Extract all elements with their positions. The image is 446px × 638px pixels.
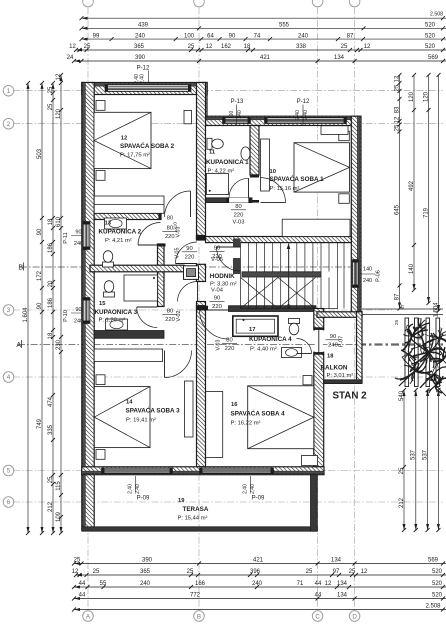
- svg-text:A: A: [16, 342, 21, 349]
- svg-text:D: D: [352, 613, 357, 620]
- svg-text:44: 44: [79, 592, 86, 598]
- svg-text:1: 1: [7, 88, 11, 95]
- svg-text:P-09: P-09: [137, 496, 150, 502]
- svg-text:115: 115: [56, 481, 62, 491]
- svg-text:P-10: P-10: [63, 310, 69, 322]
- svg-text:25: 25: [84, 44, 91, 50]
- svg-text:134: 134: [337, 592, 348, 598]
- svg-text:3: 3: [7, 307, 11, 314]
- svg-text:90: 90: [214, 246, 220, 252]
- svg-text:90: 90: [229, 111, 235, 117]
- svg-text:120: 120: [409, 91, 415, 102]
- svg-text:220: 220: [185, 255, 195, 261]
- svg-text:83: 83: [394, 106, 400, 113]
- svg-text:P: 1,20 m²: P: 1,20 m²: [99, 318, 126, 324]
- svg-text:220: 220: [212, 304, 222, 310]
- svg-text:492: 492: [409, 180, 415, 191]
- svg-text:5: 5: [7, 468, 11, 475]
- svg-text:2,40: 2,40: [295, 110, 301, 120]
- svg-text:74: 74: [254, 33, 261, 39]
- svg-text:6: 6: [7, 499, 11, 506]
- svg-text:2,40: 2,40: [243, 484, 249, 494]
- svg-text:12: 12: [394, 116, 400, 123]
- svg-text:P: 4,22 m²: P: 4,22 m²: [208, 168, 235, 174]
- svg-text:44: 44: [315, 581, 322, 587]
- svg-text:645: 645: [394, 204, 400, 215]
- svg-text:P-09: P-09: [252, 496, 265, 502]
- svg-text:520: 520: [425, 33, 436, 39]
- svg-text:134: 134: [334, 55, 345, 61]
- svg-text:390: 390: [142, 557, 153, 563]
- svg-text:18: 18: [244, 44, 251, 50]
- svg-text:240: 240: [135, 33, 146, 39]
- svg-text:25: 25: [48, 476, 54, 483]
- svg-text:1.604: 1.604: [433, 302, 439, 318]
- svg-text:2.508: 2.508: [430, 12, 443, 18]
- svg-text:V-05: V-05: [175, 247, 181, 258]
- svg-text:2,40: 2,40: [135, 484, 141, 494]
- svg-text:99: 99: [93, 33, 100, 39]
- svg-text:KUPAONICA 1: KUPAONICA 1: [206, 159, 249, 166]
- svg-text:90: 90: [229, 33, 236, 39]
- svg-text:P: 4,21 m²: P: 4,21 m²: [105, 238, 132, 244]
- svg-text:97: 97: [333, 569, 340, 575]
- svg-text:2,40: 2,40: [128, 484, 134, 494]
- svg-text:474: 474: [48, 396, 54, 407]
- svg-text:19: 19: [178, 498, 185, 504]
- svg-text:90: 90: [214, 296, 220, 302]
- svg-text:520: 520: [425, 23, 436, 29]
- svg-text:B: B: [197, 613, 201, 620]
- svg-text:25: 25: [394, 84, 400, 91]
- svg-text:P: 17,75 m²: P: 17,75 m²: [120, 153, 150, 159]
- svg-text:520: 520: [432, 569, 443, 575]
- svg-text:25: 25: [341, 44, 348, 50]
- svg-text:220: 220: [225, 346, 235, 352]
- svg-text:520: 520: [432, 592, 443, 598]
- svg-text:569: 569: [428, 557, 439, 563]
- svg-text:P-12: P-12: [137, 66, 150, 72]
- svg-text:240: 240: [140, 581, 151, 587]
- svg-text:P: 4,40 m²: P: 4,40 m²: [250, 346, 277, 352]
- svg-text:V-05: V-05: [211, 257, 223, 263]
- svg-text:335: 335: [48, 424, 54, 435]
- svg-text:421: 421: [260, 55, 271, 61]
- svg-text:240: 240: [328, 343, 338, 349]
- svg-text:P: 15,16 m²: P: 15,16 m²: [270, 186, 300, 192]
- svg-text:12: 12: [394, 75, 400, 82]
- svg-text:24: 24: [67, 55, 74, 61]
- svg-text:87: 87: [400, 304, 406, 310]
- svg-text:80: 80: [226, 338, 232, 344]
- svg-text:610: 610: [56, 216, 62, 227]
- svg-text:90: 90: [186, 246, 192, 252]
- svg-text:90: 90: [37, 228, 43, 235]
- svg-text:P-07: P-07: [339, 336, 345, 347]
- svg-text:109: 109: [56, 511, 62, 522]
- svg-text:365: 365: [134, 44, 145, 50]
- svg-text:25: 25: [399, 467, 405, 474]
- svg-text:44: 44: [315, 592, 322, 598]
- svg-text:396: 396: [250, 569, 261, 575]
- svg-text:V-03: V-03: [216, 339, 222, 350]
- svg-text:80: 80: [167, 215, 173, 221]
- svg-text:100: 100: [184, 33, 195, 39]
- svg-text:212: 212: [399, 497, 405, 508]
- svg-text:12: 12: [364, 44, 371, 50]
- svg-text:220: 220: [165, 317, 175, 323]
- svg-text:162: 162: [221, 44, 232, 50]
- svg-text:64: 64: [207, 33, 214, 39]
- svg-text:16: 16: [231, 402, 238, 408]
- svg-text:12: 12: [69, 44, 76, 50]
- svg-text:140: 140: [363, 267, 372, 273]
- svg-text:V-04: V-04: [211, 288, 224, 294]
- svg-text:SPAVAĆA SOBA 1: SPAVAĆA SOBA 1: [270, 174, 325, 183]
- svg-text:537: 537: [411, 449, 417, 460]
- svg-text:55: 55: [100, 581, 107, 587]
- svg-text:12: 12: [325, 581, 332, 587]
- svg-text:2.508: 2.508: [425, 603, 441, 609]
- svg-text:KUPAONICA 3: KUPAONICA 3: [95, 309, 138, 316]
- svg-text:SPAVAĆA SOBA 4: SPAVAĆA SOBA 4: [231, 409, 286, 418]
- svg-text:V-03: V-03: [233, 220, 245, 226]
- svg-text:25: 25: [394, 124, 400, 131]
- svg-text:90: 90: [75, 307, 81, 313]
- svg-text:P: 3,01 m²: P: 3,01 m²: [327, 373, 354, 379]
- svg-text:25: 25: [74, 557, 81, 563]
- svg-text:80: 80: [235, 204, 241, 210]
- svg-text:80: 80: [167, 309, 173, 315]
- svg-text:P: 15,44 m²: P: 15,44 m²: [178, 516, 208, 522]
- svg-text:240: 240: [298, 33, 309, 39]
- svg-text:240: 240: [363, 278, 372, 284]
- svg-text:719: 719: [423, 207, 429, 218]
- svg-text:BALKON: BALKON: [321, 364, 348, 371]
- svg-text:15: 15: [99, 301, 106, 307]
- svg-text:STAN 2: STAN 2: [333, 391, 368, 402]
- svg-text:166: 166: [195, 581, 206, 587]
- svg-text:87: 87: [394, 293, 400, 300]
- svg-text:2,40: 2,40: [250, 484, 256, 494]
- svg-text:14: 14: [126, 400, 133, 406]
- svg-text:V-02: V-02: [176, 310, 182, 321]
- svg-text:P-12: P-12: [297, 99, 310, 105]
- svg-text:12: 12: [206, 44, 213, 50]
- svg-text:12: 12: [72, 569, 79, 575]
- svg-text:140: 140: [409, 263, 415, 274]
- svg-text:421: 421: [253, 557, 264, 563]
- svg-text:2,40: 2,40: [303, 110, 309, 120]
- svg-text:240: 240: [237, 110, 243, 119]
- svg-text:12: 12: [361, 569, 368, 575]
- svg-text:390: 390: [135, 55, 146, 61]
- svg-text:18: 18: [48, 332, 54, 339]
- svg-text:TERASA: TERASA: [183, 506, 209, 513]
- svg-text:338: 338: [296, 44, 307, 50]
- svg-text:SPAVAĆA SOBA 2: SPAVAĆA SOBA 2: [120, 141, 175, 150]
- svg-text:120: 120: [423, 91, 429, 102]
- svg-text:520: 520: [425, 44, 436, 50]
- svg-text:569: 569: [428, 55, 439, 61]
- svg-text:P: 16,22 m²: P: 16,22 m²: [231, 421, 261, 427]
- svg-text:220: 220: [234, 213, 244, 219]
- svg-text:4: 4: [7, 374, 11, 381]
- svg-text:520: 520: [432, 581, 443, 587]
- svg-text:P-11: P-11: [63, 232, 69, 243]
- svg-text:230: 230: [56, 339, 62, 350]
- svg-text:25: 25: [187, 569, 194, 575]
- svg-text:11: 11: [209, 150, 216, 156]
- svg-text:134: 134: [331, 557, 342, 563]
- svg-text:25: 25: [93, 569, 100, 575]
- svg-text:87: 87: [347, 33, 354, 39]
- svg-text:210: 210: [173, 222, 179, 230]
- svg-text:KUPAONICA 2: KUPAONICA 2: [99, 229, 142, 236]
- svg-text:P-06: P-06: [376, 270, 382, 282]
- svg-text:C: C: [315, 613, 320, 620]
- svg-text:439: 439: [138, 23, 149, 29]
- svg-text:540: 540: [399, 390, 405, 401]
- svg-text:186: 186: [48, 297, 54, 308]
- svg-text:25: 25: [349, 569, 356, 575]
- svg-text:120: 120: [56, 108, 62, 119]
- svg-text:172: 172: [37, 270, 43, 281]
- svg-text:12: 12: [121, 136, 127, 142]
- svg-text:44: 44: [79, 581, 86, 587]
- svg-text:P-13: P-13: [231, 99, 244, 105]
- svg-text:18: 18: [48, 218, 54, 225]
- svg-text:90: 90: [75, 230, 81, 236]
- svg-text:25: 25: [48, 103, 54, 110]
- svg-text:71: 71: [297, 581, 304, 587]
- svg-text:P: 19,41 m²: P: 19,41 m²: [126, 418, 156, 424]
- svg-text:13: 13: [105, 221, 112, 227]
- svg-text:240: 240: [252, 581, 263, 587]
- svg-text:749: 749: [37, 418, 43, 429]
- svg-text:212: 212: [48, 501, 54, 512]
- svg-text:B: B: [18, 265, 23, 272]
- svg-text:KUPAONICA 4: KUPAONICA 4: [249, 336, 292, 343]
- svg-text:186: 186: [48, 242, 54, 253]
- svg-text:HODNIK: HODNIK: [210, 273, 235, 280]
- svg-text:555: 555: [279, 23, 290, 29]
- svg-text:SPAVAĆA SOBA 3: SPAVAĆA SOBA 3: [126, 406, 181, 415]
- svg-text:365: 365: [140, 569, 151, 575]
- svg-text:134: 134: [337, 581, 348, 587]
- svg-text:18: 18: [327, 354, 334, 360]
- svg-text:17: 17: [249, 327, 255, 333]
- svg-text:10: 10: [270, 169, 276, 175]
- svg-text:1.604: 1.604: [23, 307, 29, 323]
- svg-text:25: 25: [306, 569, 313, 575]
- svg-text:772: 772: [190, 592, 201, 598]
- svg-text:90: 90: [37, 302, 43, 309]
- svg-text:537: 537: [422, 449, 428, 460]
- svg-text:80: 80: [167, 226, 173, 232]
- svg-text:2: 2: [7, 121, 11, 128]
- svg-text:25: 25: [48, 86, 54, 93]
- svg-text:503: 503: [37, 148, 43, 159]
- svg-text:25: 25: [394, 320, 400, 326]
- svg-text:220: 220: [165, 234, 175, 240]
- svg-text:12: 12: [56, 73, 62, 80]
- svg-text:25: 25: [188, 44, 195, 50]
- svg-text:90: 90: [330, 334, 336, 340]
- svg-text:20: 20: [48, 280, 54, 287]
